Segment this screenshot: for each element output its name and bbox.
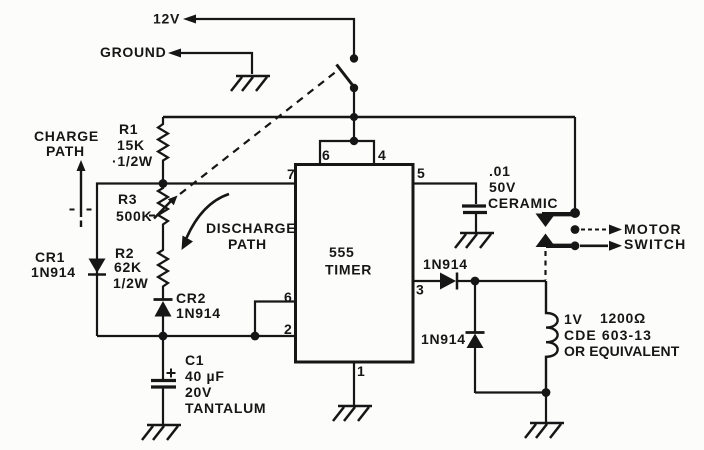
svg-text:R3: R3 [118,191,137,207]
svg-text:20V: 20V [185,384,212,400]
node junction diode branch [471,277,480,286]
svg-text:62K: 62K [114,259,142,275]
svg-text:GROUND: GROUND [100,44,166,60]
capacitor C1 [162,336,164,379]
svg-text:12V: 12V [153,11,180,27]
svg-text:1N914: 1N914 [423,256,468,272]
node junction C1 [159,332,168,341]
svg-text:50V: 50V [489,179,516,195]
node switch terminal [571,241,580,250]
op-amp U1 555 timer box [296,165,414,363]
ground (bypass cap) [455,233,494,248]
svg-text:C1: C1 [185,352,204,368]
svg-text:1N914: 1N914 [421,331,466,347]
wire 12V feed arrow [183,15,196,24]
svg-text:2: 2 [284,321,293,337]
inductor L1 relay coil [546,281,558,392]
svg-text:4: 4 [378,147,387,163]
pin 2 wire [97,335,296,337]
svg-text:1: 1 [357,363,366,379]
svg-text:.01: .01 [489,163,511,179]
wire motor arrow [581,229,608,231]
svg-text:40 µF: 40 µF [185,368,225,384]
diode CR2 [154,298,173,301]
svg-text:DISCHARGE: DISCHARGE [206,220,296,236]
svg-text:6: 6 [322,147,331,163]
svg-text:TANTALUM: TANTALUM [185,400,266,416]
resistor R1 [158,117,168,183]
pin 3 wire [413,280,440,282]
motor switch contact upper [542,212,576,216]
wire ground feed [180,53,252,74]
svg-text:·1/2W: ·1/2W [112,153,153,169]
diode flyback 1N914 [466,331,485,334]
wire bottom of branch [475,391,546,393]
svg-text:CERAMIC: CERAMIC [488,195,558,211]
node motor switch common [570,208,580,218]
dashed wire motor switch to coil node [544,251,546,280]
svg-text:PATH: PATH [46,143,85,159]
node junction R1/R3/pin7 [159,179,168,188]
pin 1 wire [353,362,355,405]
svg-text:3: 3 [416,282,425,298]
svg-text:CHARGE: CHARGE [34,128,99,144]
resistor R3 (rheostat) [158,184,168,241]
capacitor bypass .01 [462,204,486,207]
wire right bus down [574,117,576,213]
resistor R2 [158,240,168,299]
node motor terminal [571,225,580,234]
ground (C1) [142,425,181,440]
switch S1 (power, on shaft of R3) [350,54,358,62]
svg-text:CR1: CR1 [35,249,65,265]
svg-text:PATH: PATH [228,236,267,252]
svg-text:1V: 1V [564,311,583,327]
ground (pin 1) [333,406,372,421]
motor switch contact lower [536,234,556,248]
svg-text:MOTOR: MOTOR [624,221,682,237]
wire ground feed arrow [168,49,181,58]
svg-text:555: 555 [329,244,354,260]
svg-text:R1: R1 [119,121,138,137]
wire diode branch down [474,281,476,333]
ground (top) [231,76,270,91]
wire switch arrow [580,245,608,248]
svg-text:1200Ω: 1200Ω [600,310,646,326]
wiper arrow of R3 [154,201,171,219]
wire switch to bus [353,88,355,141]
svg-text:CDE 603-13: CDE 603-13 [564,327,652,343]
wire pins 8/4 top strap [320,141,374,165]
svg-text:SWITCH: SWITCH [624,236,686,252]
svg-text:7: 7 [287,166,296,182]
node junction coil bottom [542,388,551,397]
diode CR1 [89,259,106,274]
wire 12V top horizontal [195,19,354,55]
arrow discharge path (curved) [187,194,230,238]
svg-text:6: 6 [284,289,293,305]
wire coil to ground [545,392,547,422]
svg-text:15K: 15K [117,137,145,153]
svg-text:CR2: CR2 [176,290,206,306]
svg-text:500K: 500K [116,208,152,224]
svg-text:5: 5 [417,165,426,181]
node junction dot top bus [350,113,358,121]
svg-text:TIMER: TIMER [325,262,372,278]
arrow charge path [77,160,86,171]
wire pin7 line [97,184,296,337]
pin 6 wire [255,302,296,337]
node junction pin6 [251,332,260,341]
svg-text:1N914: 1N914 [176,305,221,321]
dashed mechanical linkage R3 to switch [180,71,338,195]
diode pin3 1N914 [440,273,456,290]
pin 5 wire [413,184,476,205]
svg-text:OR EQUIVALENT: OR EQUIVALENT [564,343,680,359]
ground (coil) [525,423,564,438]
svg-text:1N914: 1N914 [31,264,76,280]
svg-text:1/2W: 1/2W [113,275,149,291]
wire pin3 to coil [457,280,546,282]
wire top bus horizontal [163,116,575,118]
